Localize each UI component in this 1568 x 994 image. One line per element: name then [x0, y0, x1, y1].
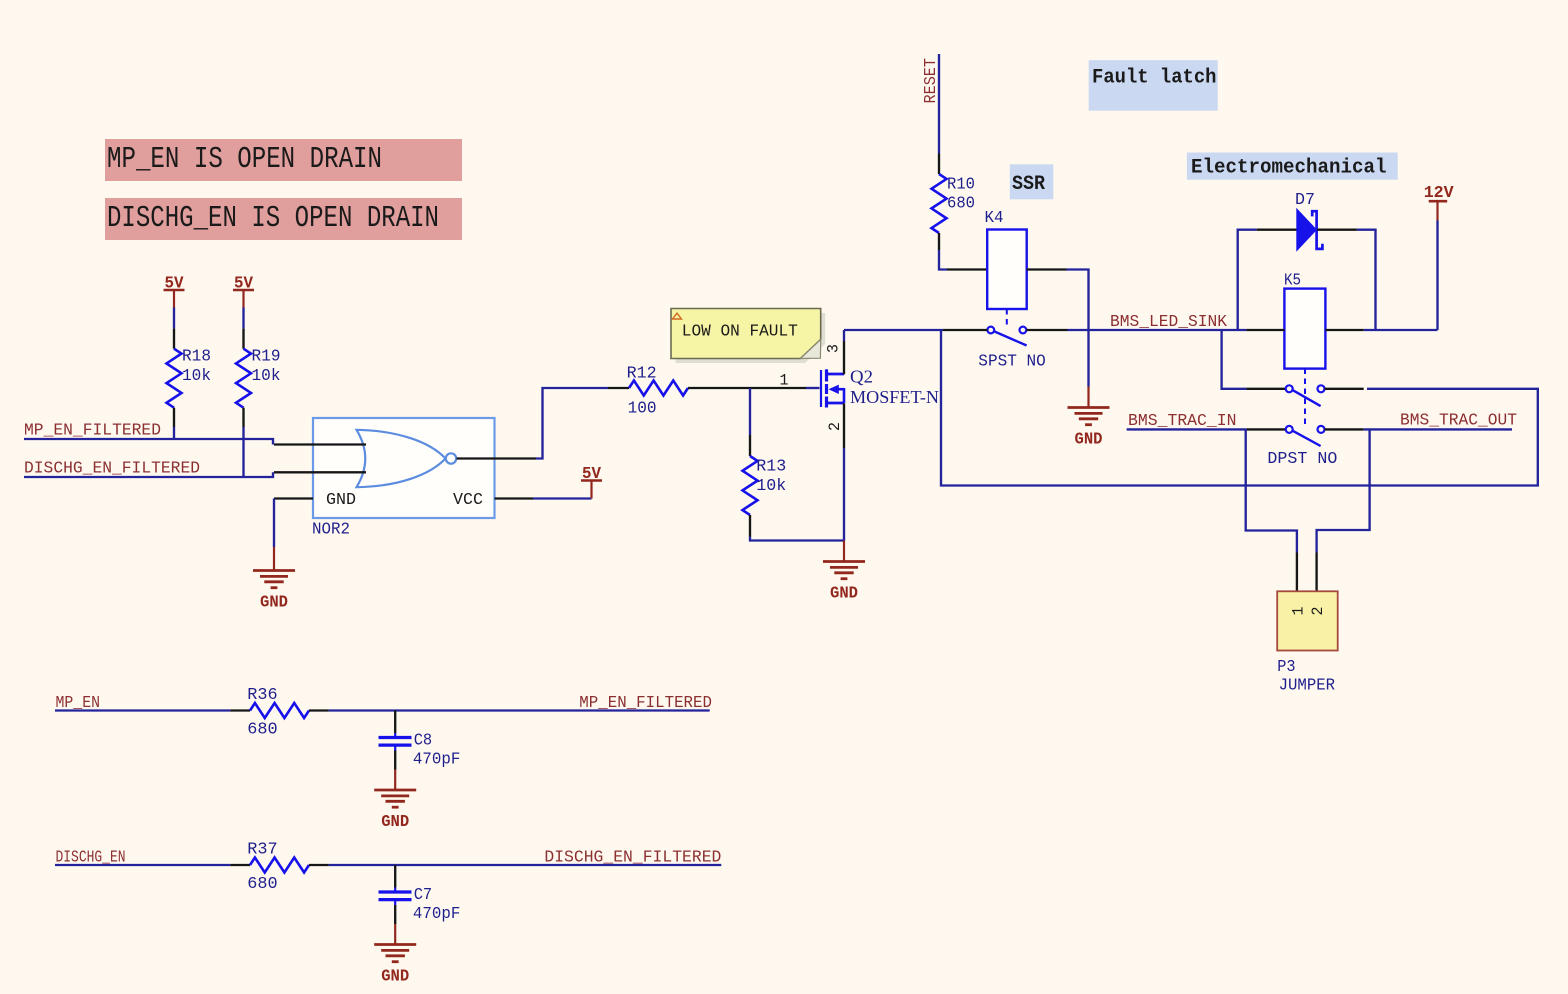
svg-text:Electromechanical: Electromechanical: [1191, 157, 1387, 180]
svg-text:P3: P3: [1277, 657, 1295, 676]
wire R36 to MP_EN_FILTERED: [329, 709, 710, 711]
svg-text:100: 100: [628, 399, 657, 418]
svg-text:LOW ON FAULT: LOW ON FAULT: [682, 322, 798, 341]
svg-text:DISCHG_EN: DISCHG_EN: [56, 848, 126, 867]
pin NOR input B: [274, 471, 366, 473]
resistor R12 100: [608, 387, 629, 389]
svg-text:5V: 5V: [234, 275, 254, 294]
wire D7 left vertical: [1238, 230, 1257, 330]
wire BMS_LED_SINK down to pole1: [1222, 330, 1247, 389]
svg-text:10k: 10k: [252, 366, 281, 385]
svg-text:MOSFET-N: MOSFET-N: [850, 387, 939, 407]
pin NOR VCC stub: [495, 497, 534, 499]
svg-text:R37: R37: [247, 840, 277, 859]
svg-text:5V: 5V: [165, 275, 185, 294]
pin NOR input A: [274, 443, 366, 445]
svg-text:MP_EN_FILTERED: MP_EN_FILTERED: [24, 421, 161, 440]
pink note: MP_EN IS OPEN DRAIN: [105, 139, 462, 181]
wire NOR GND down: [273, 499, 275, 548]
svg-text:DPST NO: DPST NO: [1267, 449, 1337, 468]
switch SPST NO: [987, 327, 994, 334]
svg-text:K4: K4: [985, 208, 1004, 227]
pin DPST pole1 right: [1325, 388, 1364, 390]
svg-text:GND: GND: [381, 968, 409, 986]
pin K5 coil left: [1246, 329, 1284, 331]
svg-text:R18: R18: [182, 347, 211, 366]
wire K5 right pin to 12V: [1364, 329, 1438, 331]
blue label box: SSR: [1010, 164, 1054, 199]
wire drain up to row: [843, 330, 845, 341]
svg-text:MP_EN_FILTERED: MP_EN_FILTERED: [579, 693, 712, 712]
svg-text:R13: R13: [756, 457, 786, 476]
svg-text:VCC: VCC: [453, 490, 483, 509]
svg-text:BMS_LED_SINK: BMS_LED_SINK: [1110, 312, 1227, 331]
svg-text:GND: GND: [381, 813, 409, 831]
wire drain loop down-right: [941, 330, 1538, 486]
wire BMS_TRAC_IN down to P3 pin1: [1246, 429, 1297, 552]
wire MP_EN: [55, 709, 230, 711]
svg-text:1: 1: [1290, 607, 1308, 616]
blue label box: Electromechanical: [1187, 153, 1398, 180]
svg-text:2: 2: [826, 422, 844, 431]
resistor R19 10k: [242, 329, 244, 349]
ground K4: [1087, 387, 1089, 408]
wire DISCHG_EN_FILTERED: [24, 472, 273, 477]
svg-text:DISCHG_EN_FILTERED: DISCHG_EN_FILTERED: [544, 848, 721, 867]
svg-text:680: 680: [947, 194, 975, 213]
wire R37 to DISCHG_EN_FILTERED: [329, 864, 722, 866]
switch DPST pole1: [1286, 385, 1293, 392]
wire R18 to MP_EN_FILTERED: [173, 427, 175, 439]
wire BMS_TRAC_OUT: [1364, 428, 1512, 430]
op-amp U? NOR2 gate box: [313, 418, 495, 518]
svg-text:Fault latch: Fault latch: [1092, 67, 1217, 90]
capacitor C7 470pF: [394, 865, 396, 888]
wire R19 down to DISCHG_EN_FILTERED: [242, 427, 244, 477]
svg-text:C7: C7: [414, 885, 433, 904]
wire K4 right down to GND: [1067, 270, 1089, 387]
svg-text:K5: K5: [1284, 271, 1301, 290]
svg-text:MP_EN: MP_EN: [56, 693, 101, 712]
pin DPST pole1 left: [1246, 388, 1285, 390]
svg-text:1: 1: [780, 372, 789, 390]
wire BMS_TRAC_IN: [1127, 428, 1247, 430]
svg-text:470pF: 470pF: [413, 904, 461, 923]
resistor R36 680: [230, 709, 250, 711]
svg-text:GND: GND: [1075, 431, 1103, 449]
transistor Q2 MOSFET-N: [820, 370, 822, 407]
pin NOR output: [457, 457, 537, 459]
wire 5V to R18: [173, 308, 175, 329]
wire 12V down to K5 row: [1436, 221, 1438, 331]
capacitor C8 470pF: [394, 711, 396, 734]
svg-text:D7: D7: [1295, 190, 1315, 209]
yellow note LOW ON FAULT: [676, 313, 826, 363]
wire junction down to R13: [749, 388, 751, 435]
wire BMS_TRAC_OUT down to P3 pin2: [1317, 429, 1370, 552]
NOR gate shape: [357, 430, 446, 487]
relay K5 coil: [1284, 289, 1325, 369]
svg-text:680: 680: [247, 720, 277, 739]
svg-text:10k: 10k: [182, 366, 211, 385]
wire SPST right to K5 row: [1026, 329, 1067, 331]
wire RESET down: [938, 54, 940, 154]
svg-text:GND: GND: [260, 594, 288, 612]
svg-text:JUMPER: JUMPER: [1279, 676, 1336, 695]
wire DISCHG_EN: [55, 864, 230, 866]
svg-text:DISCHG_EN_FILTERED: DISCHG_EN_FILTERED: [24, 459, 200, 478]
pin DPST pole2 left: [1246, 428, 1285, 430]
svg-text:BMS_TRAC_OUT: BMS_TRAC_OUT: [1400, 411, 1517, 430]
svg-text:C8: C8: [414, 731, 433, 750]
wire NOR output to R12: [536, 388, 608, 459]
power 5V (VCC): [590, 482, 592, 499]
wire R10 to K4: [939, 250, 947, 270]
svg-text:SSR: SSR: [1012, 173, 1045, 196]
svg-text:GND: GND: [326, 490, 356, 509]
wire VCC to 5V: [533, 497, 592, 499]
ground Q2 source: [843, 541, 845, 562]
svg-text:470pF: 470pF: [413, 750, 461, 769]
svg-text:SPST NO: SPST NO: [978, 352, 1046, 371]
pin D7 cathode: [1317, 229, 1357, 231]
pin K5 coil right: [1326, 329, 1364, 331]
svg-text:R36: R36: [247, 685, 277, 704]
svg-text:RESET: RESET: [921, 58, 940, 104]
svg-text:Q2: Q2: [850, 367, 873, 387]
svg-text:BMS_TRAC_IN: BMS_TRAC_IN: [1128, 411, 1237, 430]
power 5V (R19): [242, 291, 244, 308]
diode D7 (schottky): [1257, 229, 1298, 231]
pin K4 coil right: [1027, 268, 1067, 270]
wire source down: [843, 448, 845, 541]
wire Q2 drain to SPST: [844, 329, 943, 331]
wire D7 right vertical: [1357, 230, 1376, 330]
svg-text:NOR2: NOR2: [312, 520, 350, 539]
pin NOR GND stub: [274, 497, 313, 499]
resistor R13 10k: [749, 435, 751, 456]
wire 5V to R19: [242, 308, 244, 329]
K5 actuator dashed link: [1304, 369, 1306, 427]
pin 3 drain stub: [843, 341, 845, 374]
ground NOR2: [273, 547, 275, 571]
resistor R37 680: [230, 864, 250, 866]
pin 2 source stub: [843, 403, 845, 448]
switch DPST pole2: [1286, 426, 1293, 433]
svg-text:680: 680: [247, 874, 277, 893]
svg-text:R10: R10: [947, 175, 975, 194]
ground C7: [394, 924, 396, 945]
wire R12 to gate junction: [750, 387, 806, 389]
relay K4 coil: [987, 230, 1026, 310]
K4 actuator dashed link: [1006, 309, 1008, 327]
wire MP_EN_FILTERED: [24, 439, 273, 445]
resistor R10 680: [938, 154, 940, 175]
svg-text:R12: R12: [627, 364, 657, 383]
blue label box: Fault latch: [1089, 60, 1218, 110]
svg-text:3: 3: [825, 344, 843, 353]
svg-text:MP_EN IS OPEN DRAIN: MP_EN IS OPEN DRAIN: [107, 142, 382, 177]
connector P3 JUMPER: [1296, 553, 1298, 592]
svg-text:2: 2: [1309, 607, 1327, 616]
svg-text:R19: R19: [252, 347, 281, 366]
wire R13 bottom to source: [750, 537, 844, 541]
ground C8: [394, 770, 396, 791]
power 5V (R18): [173, 291, 175, 308]
pin DPST pole2 right: [1325, 428, 1364, 430]
pink note: DISCHG_EN IS OPEN DRAIN: [105, 198, 462, 240]
svg-text:GND: GND: [830, 585, 858, 603]
resistor R18 10k: [173, 329, 175, 349]
svg-text:10k: 10k: [756, 476, 786, 495]
svg-text:5V: 5V: [582, 465, 602, 484]
svg-text:DISCHG_EN IS OPEN DRAIN: DISCHG_EN IS OPEN DRAIN: [107, 201, 439, 236]
